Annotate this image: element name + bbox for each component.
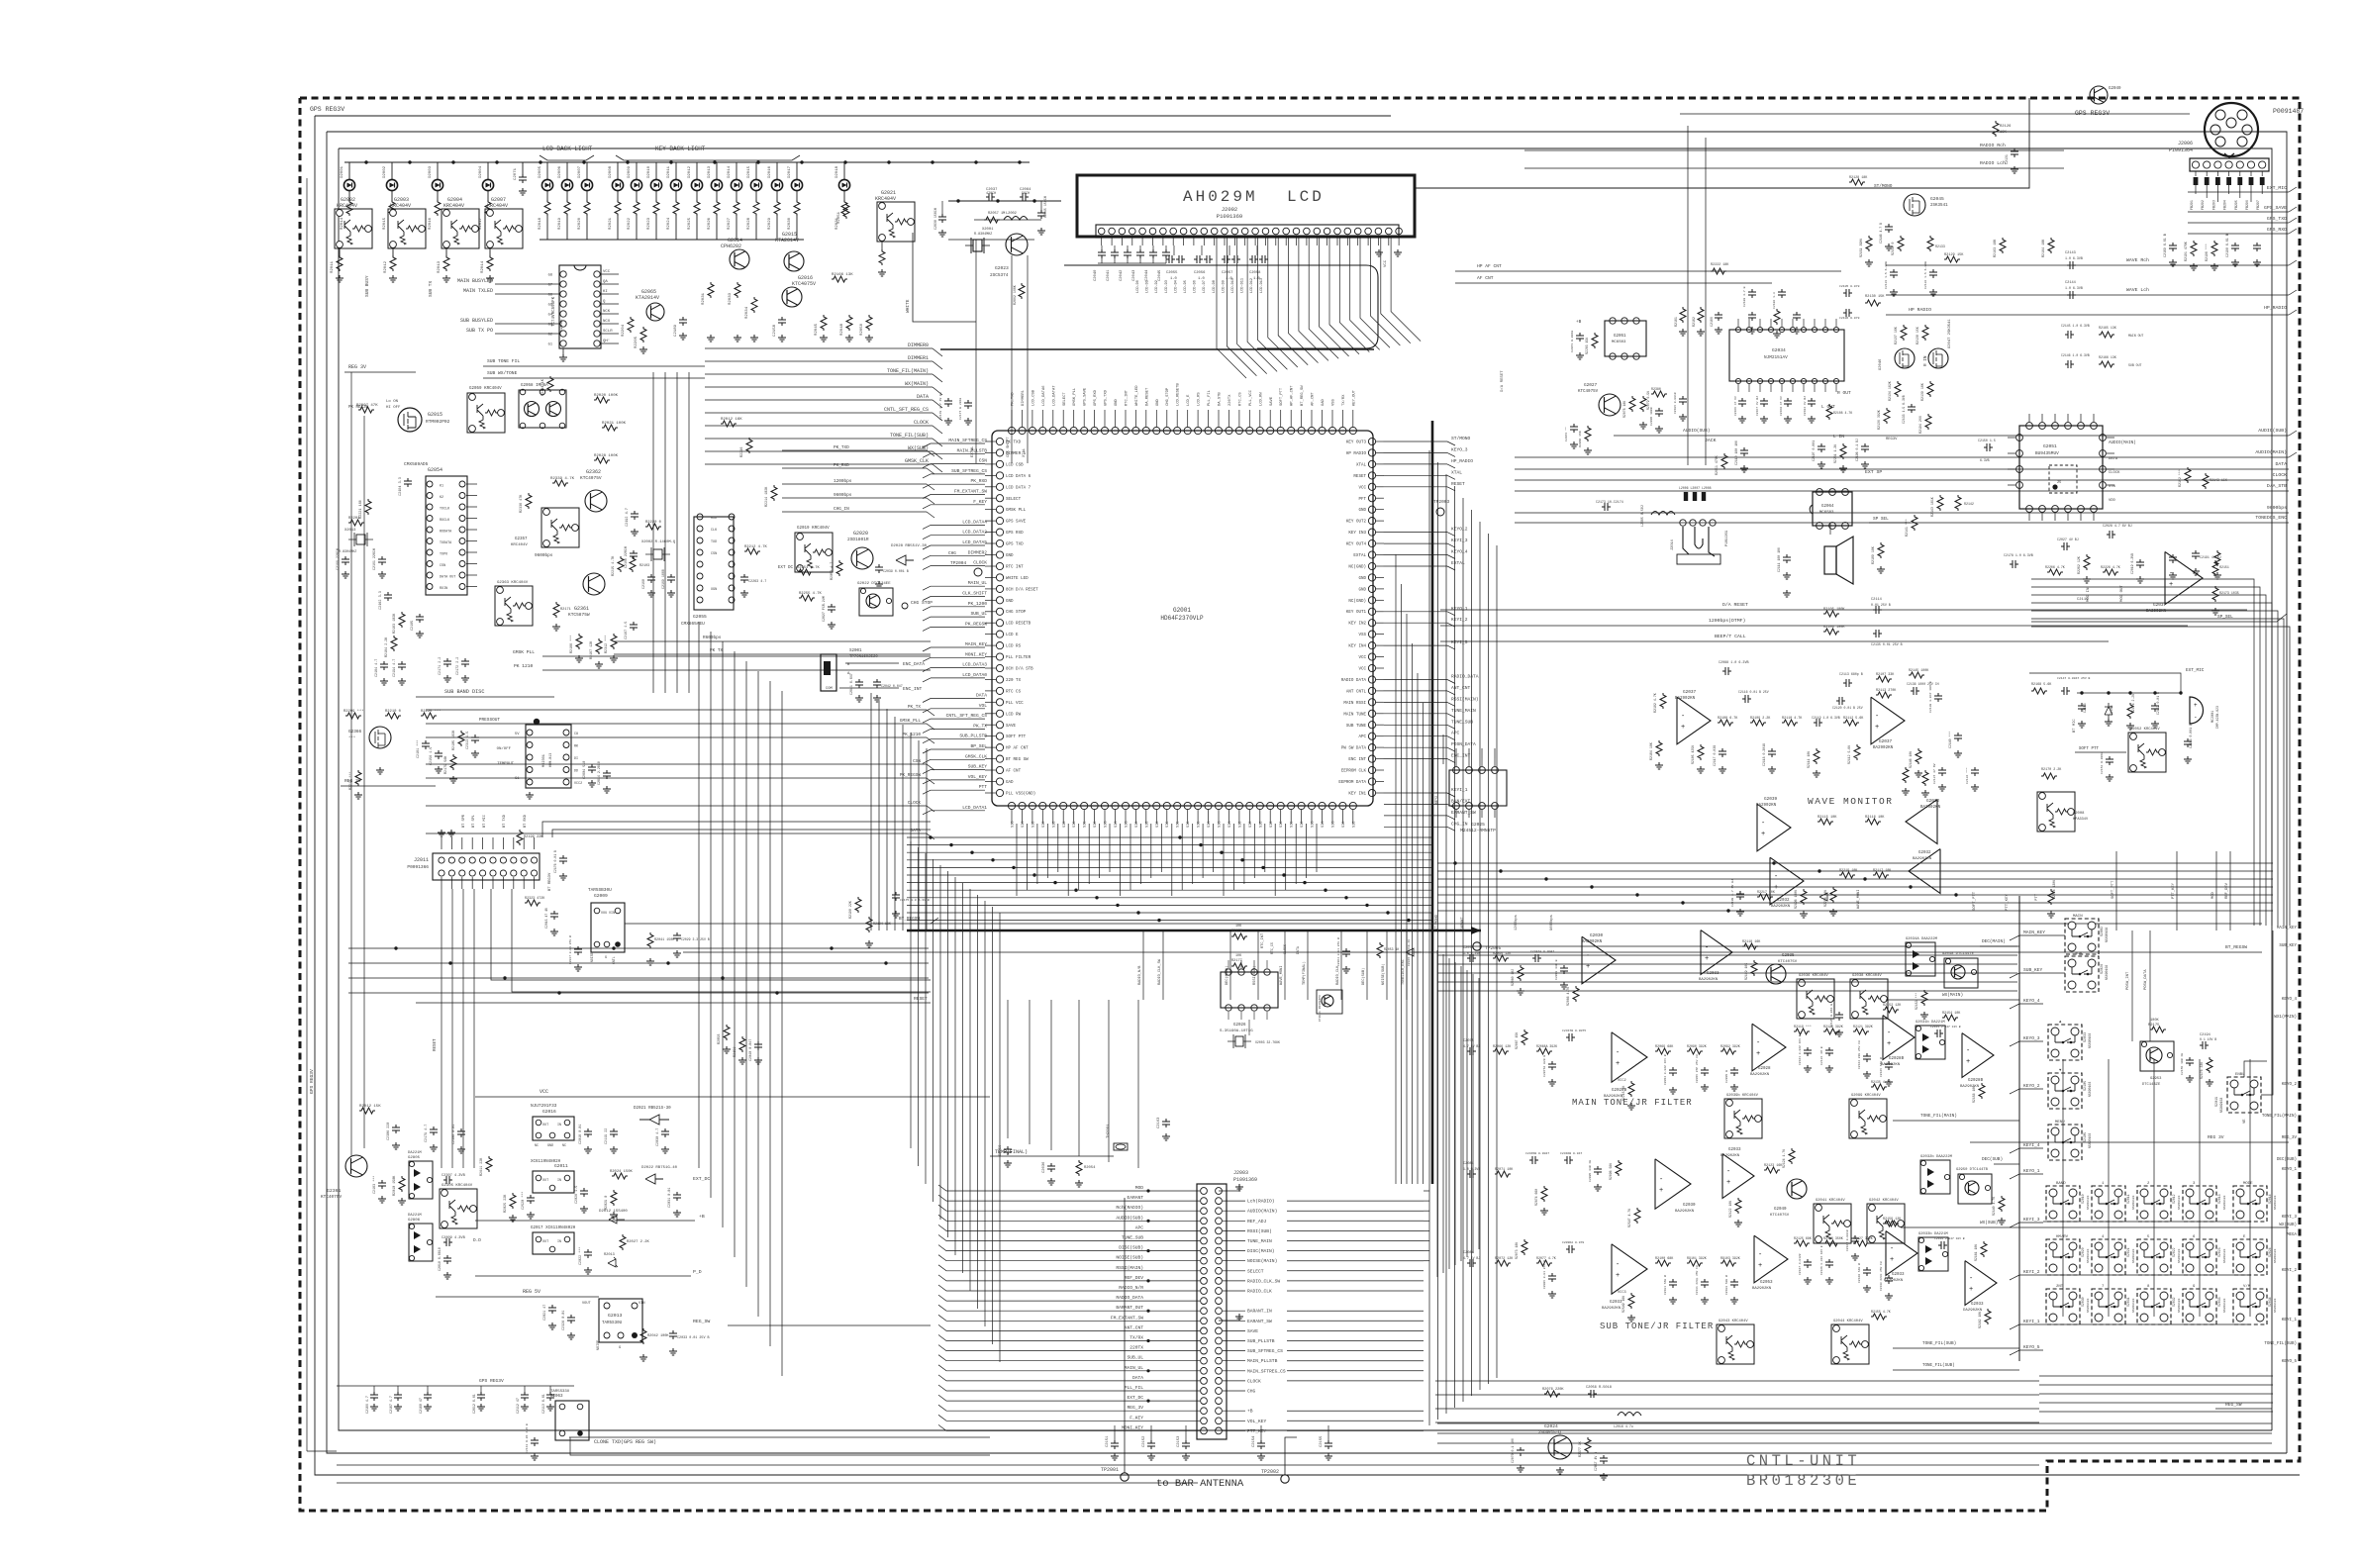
svg-text:S2014: S2014 <box>2268 1194 2272 1204</box>
svg-text:DA_RESET: DA_RESET <box>1145 387 1149 406</box>
svg-text:C2130 2200 25V CH: C2130 2200 25V CH <box>1880 1261 1883 1291</box>
capacitor C2108 <box>427 1386 429 1392</box>
svg-text:HP AF CNT: HP AF CNT <box>1477 263 1502 269</box>
resistor R2380 <box>1651 391 1667 397</box>
svg-text:RXIN: RXIN <box>440 587 447 591</box>
resistor R2068A <box>1536 1048 1552 1054</box>
svg-text:-: - <box>1875 713 1879 721</box>
svg-text:-: - <box>1966 1047 1970 1055</box>
resistor R2028 100K <box>594 457 610 463</box>
wire LCD data line <box>1217 238 1246 378</box>
capacitor C2031b <box>673 1192 681 1201</box>
svg-text:R2066 4.7K: R2066 4.7K <box>1566 987 1570 1006</box>
wire J2003 right CLOCK <box>1223 1380 1245 1382</box>
key switch 2 <box>2137 1186 2171 1222</box>
LCD pin 18 <box>1273 228 1280 235</box>
svg-text:SUB BUSY: SUB BUSY <box>364 275 370 297</box>
wire G2056 right pin <box>601 343 619 344</box>
svg-text:SUB OUT: SUB OUT <box>2128 363 2141 367</box>
net flag MAIN_KEY <box>931 646 985 648</box>
svg-text:WAVE MONITOR: WAVE MONITOR <box>1808 796 1893 807</box>
MCU left pin 6 <box>996 495 1003 502</box>
svg-text:P0091487: P0091487 <box>2273 108 2304 115</box>
key switch 7 <box>2092 1289 2125 1324</box>
svg-text:R2116 10K: R2116 10K <box>1865 816 1885 820</box>
svg-text:LCD-D13: LCD-D13 <box>1260 278 1264 293</box>
svg-text:G2051: G2051 <box>2043 443 2057 449</box>
resistor R2194 18K <box>866 917 872 932</box>
resistor R2206 4.7K <box>2047 569 2063 575</box>
svg-text:GND: GND <box>1006 600 1014 604</box>
svg-text:R2201: R2201 <box>348 517 360 521</box>
net flag KEYO_4 <box>1384 554 1447 556</box>
resistor R2027 below LED <box>736 191 737 200</box>
net WX(SUB) fl <box>1901 1226 2289 1228</box>
net HP_RADIO <box>1886 314 2289 316</box>
svg-text:LCD RW: LCD RW <box>1006 713 1022 717</box>
svg-text:TAR5S30U: TAR5S30U <box>602 1322 623 1325</box>
test point TP2004 <box>974 568 982 576</box>
svg-text:WAVE_MONI: WAVE_MONI <box>1280 966 1284 985</box>
svg-text:VCC: VCC <box>540 1089 548 1095</box>
resistor R2201 <box>348 520 364 526</box>
capacitor C2160 220CH <box>630 550 638 559</box>
svg-text:G2028B: G2028B <box>1889 1057 1905 1061</box>
svg-text:G2013: G2013 <box>608 1313 623 1319</box>
svg-text:HI OFF: HI OFF <box>386 406 401 410</box>
resistor R2027 2.2K <box>620 1234 626 1250</box>
svg-text:G2038 KRC404V: G2038 KRC404V <box>1852 974 1882 978</box>
svg-text:WAVE Rch: WAVE Rch <box>2126 257 2149 263</box>
MCU bottom pin 14 <box>1142 802 1149 809</box>
svg-text:1200bps: 1200bps <box>834 479 852 484</box>
wire thick bus corner to right <box>1432 930 1481 932</box>
net DIMMER0 into MCU bundle <box>705 347 933 349</box>
wire G2056 right pin <box>601 273 619 275</box>
wire J2003 right CHG <box>1223 1390 1245 1392</box>
resistor R2073 18K <box>1522 1239 1527 1255</box>
MCU right pin 16 <box>1368 608 1375 615</box>
svg-text:CHG: CHG <box>1247 1389 1256 1395</box>
resistor R2199 22K <box>517 830 523 845</box>
J2011 pin 3 <box>459 857 465 863</box>
svg-text:R2153 ***: R2153 *** <box>1915 993 1918 1010</box>
svg-text:GND: GND <box>1006 554 1014 558</box>
svg-text:LCD_RESETB: LCD_RESETB <box>1177 382 1181 406</box>
net CHG_IN mid <box>782 511 927 513</box>
svg-text:R2189 10K: R2189 10K <box>1871 546 1875 564</box>
svg-text:ENC INT: ENC INT <box>1348 758 1366 762</box>
MCU left pin 17 <box>996 620 1003 627</box>
svg-text:LCD_DATA2: LCD_DATA2 <box>962 530 987 536</box>
net SP_SEL <box>2031 614 2287 622</box>
resistor R2217 10K <box>1757 894 1773 900</box>
svg-text:WX(MAIN): WX(MAIN) <box>1942 993 1963 998</box>
MCU top pin 2 <box>1019 427 1026 434</box>
svg-text:TC74VHC595FK: TC74VHC595FK <box>552 296 556 327</box>
MCU bottom pin 24 <box>1246 802 1253 809</box>
resistor R2105b 100K <box>1823 611 1839 617</box>
capacitor C2309 4.7 <box>443 1238 452 1246</box>
capacitor C2326 0.01 <box>567 1315 575 1323</box>
svg-text:LCD DATA 6: LCD DATA 6 <box>1006 475 1032 479</box>
svg-text:-: - <box>1969 1275 1973 1283</box>
resistor R2196 100K <box>1801 889 1807 905</box>
MCU right pin 21 <box>1368 664 1375 671</box>
wire right bus band 2 <box>1437 945 2017 947</box>
svg-text:+: + <box>1705 955 1709 963</box>
resistor R2192 *** <box>2185 467 2191 483</box>
svg-text:LCD-D10: LCD-D10 <box>1231 278 1235 293</box>
svg-text:PK_1200: PK_1200 <box>968 601 988 607</box>
capacitor C2151 0.0018 <box>2106 756 2113 765</box>
svg-text:SIG: SIG <box>1187 822 1191 828</box>
svg-text:M62301: M62301 <box>542 754 546 767</box>
MCU top pin 10 <box>1101 427 1108 434</box>
svg-text:REG 3V: REG 3V <box>348 364 366 370</box>
svg-text:6.3VB: 6.3VB <box>1980 458 1990 462</box>
svg-text:C2042 0.047: C2042 0.047 <box>881 684 903 688</box>
ground <box>820 335 828 342</box>
MCU top pin 17 <box>1174 427 1181 434</box>
svg-text:NCX: NCX <box>603 320 611 324</box>
net label KEYI_3 <box>2010 1223 2019 1227</box>
svg-text:SUB_KEY: SUB_KEY <box>2023 967 2043 973</box>
svg-text:SIG: SIG <box>1280 822 1284 828</box>
svg-text:SIG: SIG <box>1012 822 1016 828</box>
svg-text:SIG: SIG <box>1270 822 1274 828</box>
capacitor C2191 4.7 <box>2192 550 2200 559</box>
net label KEYO_1 <box>2010 1174 2019 1179</box>
key switch BAND <box>2046 1186 2080 1222</box>
wire right mid horizontals <box>1437 862 2273 864</box>
svg-text:56CH: 56CH <box>1022 192 1030 196</box>
svg-text:R2119 10K: R2119 10K <box>1744 963 1748 980</box>
svg-text:C2045: C2045 <box>1158 269 1162 281</box>
svg-text:BT TXD: BT TXD <box>503 815 507 828</box>
svg-text:SIG: SIG <box>1022 822 1026 828</box>
svg-text:BA2902KN: BA2902KN <box>1756 804 1777 808</box>
svg-text:DTC143ZE: DTC143ZE <box>2142 1083 2161 1087</box>
resistor R2118 16K <box>1742 943 1758 949</box>
svg-text:D2021 RB521S-30: D2021 RB521S-30 <box>634 1107 671 1111</box>
svg-text:LCD_DATA0: LCD_DATA0 <box>962 672 987 678</box>
svg-text:D/A RESET: D/A RESET <box>1500 370 1505 392</box>
wire rail bottom-left join <box>307 1450 337 1452</box>
net flag HP_RADIO <box>1384 463 1447 465</box>
svg-text:TAR5SB30U: TAR5SB30U <box>588 888 612 893</box>
capacitor C2194 4.7 <box>398 661 406 670</box>
capacitor C2037 470CH <box>986 193 995 201</box>
svg-text:QA: QA <box>603 280 608 284</box>
capacitor C2176 0.01 B <box>559 855 567 864</box>
capacitor C2093 <box>1560 965 1568 974</box>
pin 7 G2056 <box>560 331 566 337</box>
MCU bottom pin 33 <box>1339 802 1346 809</box>
wire keypad left rail <box>2018 896 2020 1361</box>
net DEC(SUB) fl <box>1994 1163 2019 1165</box>
svg-text:NJM2151AV: NJM2151AV <box>1764 355 1788 360</box>
svg-text:C2019 6.3VB: C2019 6.3VB <box>2130 553 2134 574</box>
svg-text:C2111 100 10V: C2111 100 10V <box>1777 547 1781 572</box>
MCU top pin 32 <box>1328 427 1335 434</box>
LCD pin 7 <box>1160 228 1167 235</box>
svg-text:R2016: R2016 <box>429 217 433 230</box>
svg-text:DEC(MAIN): DEC(MAIN) <box>1982 939 2006 944</box>
svg-text:9600bps: 9600bps <box>2267 505 2287 511</box>
svg-text:R2651 478K: R2651 478K <box>1715 455 1719 475</box>
MCU top pin 5 <box>1049 427 1056 434</box>
svg-text:C2125 560 B: C2125 560 B <box>1880 1057 1883 1077</box>
MCU right pin 9 <box>1368 529 1375 536</box>
MCU right pin 6 <box>1368 495 1375 502</box>
MCU right pin 8 <box>1368 518 1375 525</box>
svg-text:VOU: VOU <box>601 912 607 916</box>
capacitor C2306 <box>392 1125 400 1133</box>
svg-text:AUDIO(MAIN): AUDIO(MAIN) <box>2109 441 2136 445</box>
svg-text:SUB_SFTREG_CS: SUB_SFTREG_CS <box>1247 1348 1283 1354</box>
IC G2034 NJM2151AV <box>1729 330 1844 381</box>
svg-text:LCD_E: LCD_E <box>1187 394 1191 406</box>
svg-text:R2027 2.2K: R2027 2.2K <box>627 1240 650 1244</box>
svg-text:R2030: R2030 <box>788 217 792 230</box>
resistor R2178 10K <box>1231 933 1247 939</box>
capacitor C2038 150CH <box>941 201 943 214</box>
wire J2003 right REF_ADJ <box>1223 1220 1245 1222</box>
transistor block G2042 KRC404V <box>1867 1204 1905 1243</box>
svg-text:C2193: C2193 <box>2083 703 2087 713</box>
capacitor C2041 LCD bias <box>1114 245 1116 249</box>
net flag ANT_CNT <box>1384 690 1447 692</box>
net label KEYI_1 <box>2010 1324 2019 1329</box>
svg-text:SOFT_PTT: SOFT_PTT <box>1973 891 1977 911</box>
resistor R2034 <box>751 297 757 313</box>
svg-text:VOL: VOL <box>979 703 988 709</box>
capacitor C2124 220 25V CH <box>1863 1053 1871 1062</box>
svg-text:D2003: D2003 <box>429 165 433 178</box>
key switch MENU S2106 <box>2048 1125 2082 1160</box>
svg-text:SIG: SIG <box>1301 822 1305 828</box>
diode D2xxx <box>1819 893 1827 901</box>
svg-text:MENU: MENU <box>2055 1121 2065 1125</box>
capacitor C2122 4V B <box>1825 1047 1833 1056</box>
svg-text:C2094 3.322 16V B: C2094 3.322 16V B <box>1664 1054 1667 1085</box>
opamp G2032 c <box>1909 849 1940 894</box>
svg-text:DA221M: DA221M <box>408 1214 422 1218</box>
svg-text:R2128 18K: R2128 18K <box>1849 176 1868 180</box>
svg-text:PLL_FIL: PLL_FIL <box>1208 389 1212 406</box>
J2011 pin 4 <box>469 857 475 863</box>
MCU right pin 26 <box>1368 722 1375 729</box>
svg-text:G2032: G2032 <box>1918 851 1931 855</box>
svg-text:N5090103: N5090103 <box>2178 1298 2181 1313</box>
svg-text:KEYI_1: KEYI_1 <box>2282 1319 2298 1323</box>
resistor R2119 18K <box>1751 960 1757 976</box>
svg-text:PK_TXD: PK_TXD <box>834 445 849 450</box>
wire left rail A <box>350 372 352 1156</box>
svg-text:R2204: R2204 <box>622 324 626 337</box>
svg-text:RADIO DATA: RADIO DATA <box>1341 679 1367 683</box>
svg-text:REF_ADJ: REF_ADJ <box>1247 1219 1267 1225</box>
svg-text:HM/RV: HM/RV <box>2056 1234 2069 1239</box>
svg-text:8CH D/A RESET: 8CH D/A RESET <box>1006 587 1038 592</box>
svg-text:BA2902KN: BA2902KN <box>1602 1307 1621 1311</box>
svg-text:S2011: S2011 <box>2126 1194 2130 1204</box>
resistor R2096b 56K <box>1616 1160 1621 1176</box>
resistor R2159b 12K <box>1883 1221 1899 1226</box>
svg-text:LCD-D6: LCD-D6 <box>1194 280 1198 293</box>
svg-text:R2020 100K: R2020 100K <box>594 394 619 398</box>
pin 15 G2056 <box>594 281 600 287</box>
svg-text:R2096 56K: R2096 56K <box>1609 1163 1613 1180</box>
capacitor C2149b 3.047 <box>1938 1241 1947 1249</box>
svg-text:C2167 1.5: C2167 1.5 <box>625 622 629 639</box>
capacitor C2141b 3.047 13V B <box>1934 1029 1943 1037</box>
svg-text:VCC2: VCC2 <box>1618 1079 1626 1083</box>
svg-text:F_KEY: F_KEY <box>1130 1415 1143 1421</box>
svg-text:GPS_RXD: GPS_RXD <box>1094 389 1098 406</box>
wire J2003 right bus <box>1287 1200 1424 1202</box>
MCU bottom pin 2 <box>1019 802 1026 809</box>
LCD pin 29 <box>1386 228 1393 235</box>
svg-text:G2030: G2030 <box>1590 933 1604 938</box>
svg-text:SIG: SIG <box>1342 822 1346 828</box>
regulator G2009 TAR5SB30U <box>591 903 625 952</box>
svg-text:RADIO_CLK: RADIO_CLK <box>1247 1289 1272 1295</box>
resistor R2100 68K <box>1655 1260 1671 1266</box>
wire TP2002 up <box>1285 1437 1297 1475</box>
net PK_RXD mid <box>782 467 927 469</box>
svg-text:R2214 102K: R2214 102K <box>765 486 769 507</box>
svg-text:PLL_VCC: PLL_VCC <box>1249 389 1253 406</box>
svg-text:R2057 1M: R2057 1M <box>988 212 1005 216</box>
svg-text:R2176 33K: R2176 33K <box>2200 1062 2204 1079</box>
capacitor C2096b 1000 <box>1655 408 1663 417</box>
net WX(MAIN) into MCU bundle <box>705 386 933 388</box>
capacitor C2307 4.7 <box>443 1176 452 1184</box>
svg-text:R2209 ***: R2209 *** <box>344 709 364 714</box>
svg-text:BT SPL: BT SPL <box>472 815 476 828</box>
resistor R2021 below LED <box>617 191 619 200</box>
capacitor C2163 <box>1162 1119 1170 1127</box>
svg-text:AH029M: AH029M <box>1183 188 1258 206</box>
capacitor C2171 2.2 <box>443 658 451 667</box>
capacitor C2111 100 10V <box>1783 554 1791 563</box>
opamp G2039 BA2902KN <box>1757 804 1791 851</box>
net CLOCK into MCU bundle <box>705 425 933 427</box>
svg-text:D2014: D2014 <box>728 165 732 178</box>
svg-text:D2029 RB751G-40: D2029 RB751G-40 <box>1408 939 1411 966</box>
svg-text:C2017 0.01 25V B: C2017 0.01 25V B <box>569 935 572 964</box>
svg-text:220 TX: 220 TX <box>1006 679 1022 683</box>
svg-text:R2029: R2029 <box>768 217 772 230</box>
svg-text:PRESSOUT: PRESSOUT <box>479 718 500 723</box>
resistor R2133 <box>1927 236 1933 251</box>
wire J2003 right MAIN_SFTREG_CS <box>1223 1370 1245 1372</box>
svg-text:GND: GND <box>1115 398 1119 406</box>
svg-text:9600bps: 9600bps <box>834 493 852 498</box>
wire LCD data line <box>1370 238 1400 345</box>
svg-text:REG3V: REG3V <box>1886 438 1898 441</box>
svg-text:PLL VCC: PLL VCC <box>1006 702 1024 706</box>
svg-text:SCLR: SCLR <box>603 330 613 334</box>
svg-text:N5090103: N5090103 <box>2274 1195 2277 1210</box>
wire keypad col bus <box>2062 1059 2064 1317</box>
svg-text:L IN: L IN <box>1833 434 1844 440</box>
svg-text:R OUT: R OUT <box>1837 390 1851 396</box>
svg-text:R2106 100K: R2106 100K <box>1823 626 1845 630</box>
diode block G2806 DA221M <box>409 1224 433 1261</box>
wire LCD data line <box>1320 238 1349 356</box>
svg-text:G2361: G2361 <box>574 606 589 612</box>
svg-text:DATA: DATA <box>2275 461 2287 467</box>
svg-text:R2182 4.7K: R2182 4.7K <box>1653 693 1657 713</box>
svg-text:CLOCK: CLOCK <box>914 420 929 426</box>
net WX(SUB) into MCU bundle <box>705 450 933 452</box>
svg-text:KEYO_4: KEYO_4 <box>2023 998 2040 1004</box>
wire J2003 right EARANT_SW <box>1223 1320 1245 1322</box>
ground J2003 pin14 <box>1219 1314 1239 1321</box>
svg-text:R2066 12K: R2066 12K <box>1493 1045 1512 1049</box>
svg-text:TX/RX: TX/RX <box>1130 1335 1143 1341</box>
svg-text:KTC4075V: KTC4075V <box>580 475 602 481</box>
svg-text:TP2001: TP2001 <box>1101 1467 1119 1473</box>
MCU right pin 20 <box>1368 653 1375 660</box>
svg-text:RADIO_DATA: RADIO_DATA <box>1116 1295 1143 1301</box>
net flag CLK_SHIFT <box>931 596 985 598</box>
capacitor C2128 540 B <box>1863 1267 1871 1276</box>
svg-text:C2520 ***: C2520 *** <box>521 1192 526 1210</box>
resistor R2219b 10K <box>1839 872 1855 878</box>
MCU bottom pin 31 <box>1319 802 1326 809</box>
svg-text:C2144: C2144 <box>2065 281 2076 285</box>
svg-text:D2011: D2011 <box>667 165 671 178</box>
wire white net <box>913 233 976 322</box>
svg-text:WAVE_MONI: WAVE_MONI <box>1857 890 1861 909</box>
svg-text:R2547 4.7K: R2547 4.7K <box>1627 1209 1631 1227</box>
svg-text:BT MIC: BT MIC <box>2073 719 2077 733</box>
svg-text:TP2005: TP2005 <box>1485 945 1502 951</box>
LED D2013 <box>716 162 718 179</box>
svg-text:R2221 180: R2221 180 <box>359 500 363 519</box>
net flag SUB_PLLSTB <box>931 738 985 740</box>
svg-text:R2150 0: R2150 0 <box>1891 243 1895 255</box>
svg-text:R2177: R2177 <box>1231 959 1242 963</box>
net KEYI_1 lower <box>1384 1118 1447 1120</box>
svg-text:C2171 2.2: C2171 2.2 <box>439 657 442 675</box>
svg-text:R2122 10K: R2122 10K <box>1728 1201 1732 1218</box>
resistor R2153b <box>1921 990 1927 1006</box>
svg-text:C2347B 0.0075: C2347B 0.0075 <box>1562 1029 1586 1032</box>
svg-text:SUB_UL: SUB_UL <box>970 611 987 617</box>
resistor R2106 100K <box>1823 629 1839 635</box>
MCU bottom pin 13 <box>1132 802 1139 809</box>
svg-text:R2126 350K: R2126 350K <box>1823 1236 1843 1240</box>
svg-text:TXCLK: TXCLK <box>440 508 450 512</box>
svg-text:G2042 KRC404V: G2042 KRC404V <box>1869 1199 1899 1203</box>
svg-text:MAIN RSSI: MAIN RSSI <box>1343 702 1366 706</box>
svg-text:SOFT PTT: SOFT PTT <box>1006 735 1027 739</box>
svg-text:G2064: G2064 <box>1821 505 1834 509</box>
svg-text:G2063: G2063 <box>550 1395 563 1399</box>
transistor G2023 2SC5374 <box>1006 234 1028 255</box>
svg-text:R2159: R2159 <box>734 1046 737 1057</box>
LED D2011 <box>675 162 677 179</box>
transistor block G2305 KRC404V <box>440 1189 477 1228</box>
MCU bottom pin 34 <box>1349 802 1356 809</box>
svg-text:RXCLK: RXCLK <box>440 519 450 523</box>
svg-text:C2105 0.0018: C2105 0.0018 <box>1674 392 1677 414</box>
